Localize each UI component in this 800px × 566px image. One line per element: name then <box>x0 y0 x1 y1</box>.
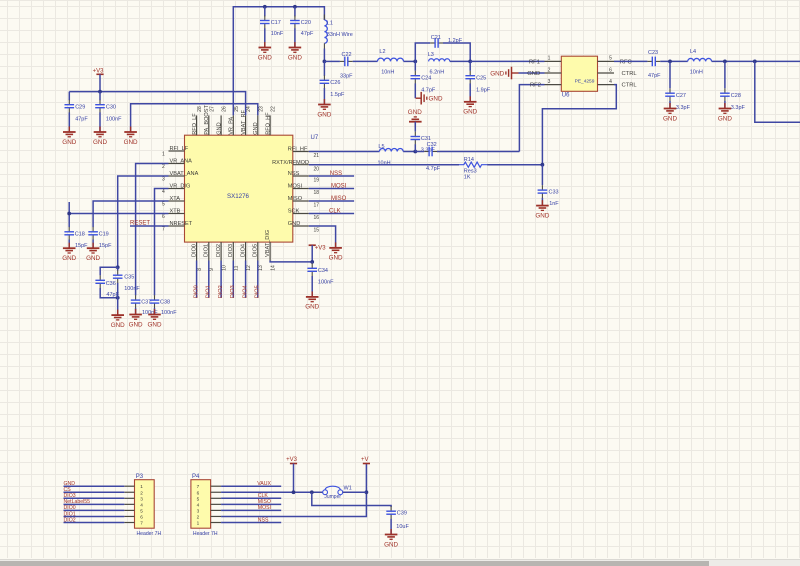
node C28 tap <box>723 60 727 64</box>
svg-text:100nF: 100nF <box>124 286 140 292</box>
svg-text:3: 3 <box>140 496 143 501</box>
wire P3 row 1 <box>64 485 125 487</box>
svg-text:C29: C29 <box>75 104 85 110</box>
wire P3 row 3 <box>64 497 125 499</box>
svg-text:Header 7H: Header 7H <box>137 531 162 537</box>
svg-text:1: 1 <box>197 521 200 526</box>
U7 pin 9 DIO1 <box>208 242 210 260</box>
node junction L3-C21-C25 <box>468 60 472 64</box>
svg-text:CTRL: CTRL <box>622 83 638 89</box>
jumper W1 <box>323 486 352 501</box>
power +V <box>361 457 370 463</box>
svg-text:DIO5: DIO5 <box>253 244 259 257</box>
ground <box>408 109 422 127</box>
svg-text:PE_4259: PE_4259 <box>575 79 595 85</box>
svg-text:1: 1 <box>162 151 165 157</box>
svg-text:C19: C19 <box>99 231 109 237</box>
U7 pin 16 SCK <box>293 213 309 215</box>
svg-text:GND: GND <box>93 139 107 146</box>
svg-text:VBAT_RF: VBAT_RF <box>241 109 247 134</box>
svg-text:CTRL: CTRL <box>622 71 638 77</box>
node antenna branch <box>753 60 757 64</box>
svg-text:16: 16 <box>314 215 320 221</box>
svg-text:21: 21 <box>314 153 320 159</box>
svg-text:8: 8 <box>197 268 203 271</box>
wire antenna branch down <box>755 61 800 122</box>
wire C28-gnd lead <box>724 101 726 109</box>
svg-text:GND: GND <box>216 122 222 134</box>
svg-text:4: 4 <box>609 79 612 85</box>
svg-text:C20: C20 <box>301 20 311 26</box>
svg-text:15pF: 15pF <box>99 243 112 249</box>
svg-text:C30: C30 <box>106 104 116 110</box>
inductor L5 <box>378 144 404 166</box>
U7 pin 5 XTA <box>169 200 185 202</box>
svg-text:GND: GND <box>305 304 319 311</box>
capacitor C34 <box>307 263 334 285</box>
wire C23 to L4 <box>660 60 688 62</box>
node C27 tap <box>668 60 672 64</box>
svg-text:6: 6 <box>140 514 143 519</box>
wire DIO2 <box>220 261 222 298</box>
svg-text:18: 18 <box>314 190 320 196</box>
svg-text:7: 7 <box>197 484 200 489</box>
wire GND pin15 <box>309 226 336 248</box>
svg-text:DIO3: DIO3 <box>228 244 234 257</box>
node C35-C36 top junction <box>116 265 120 269</box>
svg-text:22: 22 <box>271 106 277 112</box>
svg-text:L1: L1 <box>327 21 333 27</box>
svg-text:Jumper: Jumper <box>324 494 341 500</box>
svg-text:1.5pF: 1.5pF <box>330 92 345 98</box>
wire jumper to +V node <box>343 491 367 493</box>
wire C27-gnd lead <box>669 101 671 109</box>
svg-text:1nF: 1nF <box>549 201 559 207</box>
svg-text:RFI_HF: RFI_HF <box>288 147 308 153</box>
wire C22 to L2 <box>353 60 378 62</box>
wire C34 lead <box>311 262 313 264</box>
svg-text:GND: GND <box>384 541 398 548</box>
svg-text:26: 26 <box>222 106 228 112</box>
U7 pin 6 XTB <box>169 213 185 215</box>
U7 pin 8 DIO0 <box>196 242 198 260</box>
inductor L2 <box>378 49 404 75</box>
svg-text:GND: GND <box>62 139 76 146</box>
power +V3 <box>309 245 327 251</box>
capacitor C18 <box>64 227 88 249</box>
capacitor C32 <box>424 142 441 172</box>
wire C35 lead <box>117 267 119 270</box>
svg-text:20: 20 <box>314 166 320 172</box>
wire C39-gnd lead <box>390 519 392 535</box>
wire C38-gnd lead <box>154 308 156 315</box>
capacitor C36 <box>95 275 119 298</box>
U7 pin 20 RXTX/RFMOD <box>293 164 309 166</box>
svg-text:+V3: +V3 <box>93 68 105 74</box>
capacitor C17 <box>260 16 284 37</box>
svg-text:2: 2 <box>197 514 200 519</box>
wire C36 branch bottom <box>100 288 118 298</box>
svg-text:5: 5 <box>609 56 612 62</box>
svg-text:2: 2 <box>162 164 165 170</box>
wire L1 to junction <box>323 49 325 62</box>
svg-text:VR_DIG: VR_DIG <box>170 184 191 190</box>
node jumper-V junction <box>365 490 369 494</box>
svg-text:28: 28 <box>197 106 203 112</box>
svg-text:NRESET: NRESET <box>170 221 193 227</box>
wire P3 row 4 <box>64 503 125 505</box>
svg-text:GND: GND <box>408 109 422 116</box>
wire C20-gnd lead <box>294 28 296 47</box>
U7 pin 26 GND <box>220 115 222 135</box>
wire DIO4 <box>245 261 247 298</box>
ground <box>463 96 477 115</box>
P3 pin 5 stub <box>124 509 134 511</box>
wire RF2 to pin 3 <box>519 85 544 152</box>
connector P3 <box>135 474 162 537</box>
svg-text:6: 6 <box>609 67 612 73</box>
svg-text:GND: GND <box>62 255 76 262</box>
svg-text:C27: C27 <box>676 93 686 99</box>
svg-text:GND: GND <box>111 322 125 329</box>
U7 pin 25 VR_PA <box>232 115 234 135</box>
svg-text:VBAT_DIG: VBAT_DIG <box>265 230 271 257</box>
svg-text:GND: GND <box>129 321 143 328</box>
wire C35-gnd lead <box>117 283 119 315</box>
node L1-C22-C26 junction <box>323 60 327 64</box>
IC U7 SX1276 <box>185 135 319 242</box>
svg-text:DIO4: DIO4 <box>240 244 246 257</box>
svg-text:VAUX: VAUX <box>257 481 271 487</box>
node C35-C36 bottom junction <box>116 296 120 300</box>
wire CLK <box>309 213 354 215</box>
ground <box>86 243 100 262</box>
wire P3 row 2 <box>64 491 125 493</box>
svg-text:R14: R14 <box>464 157 474 163</box>
P4 pin 4 stub <box>211 503 222 505</box>
U7 pin 14 VBAT_DIG <box>269 242 271 260</box>
svg-text:14: 14 <box>271 265 277 271</box>
svg-text:RF2: RF2 <box>530 83 541 89</box>
svg-text:W1: W1 <box>344 486 352 492</box>
P4 pin 2 stub <box>211 515 222 517</box>
svg-text:C18: C18 <box>75 231 85 237</box>
U6 pin 3 stub <box>545 84 562 86</box>
wire P4 row 1 <box>221 522 281 524</box>
P4 pin 7 stub <box>211 485 222 487</box>
wire VR_ANA to C37 <box>136 164 169 296</box>
wire C20 lead <box>294 7 296 17</box>
wire C28 lead <box>724 61 726 88</box>
wire MISO <box>309 200 354 202</box>
wire junction to C32 <box>415 151 424 153</box>
svg-text:L4: L4 <box>690 49 696 55</box>
wire C34-gnd lead <box>311 276 313 297</box>
wire RFC to C23 <box>614 60 647 62</box>
svg-text:DIO1: DIO1 <box>204 244 210 257</box>
svg-text:47pF: 47pF <box>301 31 314 37</box>
node VBAT_DIG junction <box>310 260 314 264</box>
ground <box>148 309 162 328</box>
U7 pin 13 DIO5 <box>257 242 259 260</box>
svg-text:33nH Wire: 33nH Wire <box>327 32 353 38</box>
svg-text:1.9pF: 1.9pF <box>476 88 491 94</box>
capacitor C28 <box>720 88 745 111</box>
svg-text:1: 1 <box>140 484 143 489</box>
svg-text:6: 6 <box>162 214 165 220</box>
P4 pin 5 stub <box>211 497 222 499</box>
svg-text:MOSI: MOSI <box>258 505 271 511</box>
svg-text:2: 2 <box>140 490 143 495</box>
wire P4 row 3 <box>221 509 281 511</box>
svg-text:GND: GND <box>329 255 343 262</box>
svg-text:DIO0: DIO0 <box>191 244 197 257</box>
wire C33 lead <box>541 165 543 186</box>
wire C37-gnd lead <box>135 308 137 315</box>
capacitor C27 <box>665 88 690 111</box>
connector P4 <box>191 474 218 537</box>
svg-text:RF1: RF1 <box>529 59 540 65</box>
svg-text:4: 4 <box>140 502 143 507</box>
svg-text:1K: 1K <box>464 174 471 180</box>
ground <box>535 200 549 219</box>
svg-text:C28: C28 <box>731 93 741 99</box>
svg-text:GND: GND <box>253 122 259 134</box>
wire C30-gnd lead <box>99 112 101 132</box>
svg-text:11: 11 <box>234 265 240 270</box>
svg-text:GND: GND <box>288 54 302 61</box>
ground <box>317 99 331 118</box>
svg-text:C23: C23 <box>648 50 658 56</box>
U7 pin 18 MOSI <box>293 188 309 190</box>
svg-text:VR_PA: VR_PA <box>229 117 235 135</box>
svg-text:15pF: 15pF <box>75 243 88 249</box>
wire C26-gnd lead <box>323 88 325 105</box>
svg-text:C36: C36 <box>106 281 116 287</box>
svg-text:100nF: 100nF <box>106 117 122 123</box>
P4 pin 6 stub <box>211 491 222 493</box>
svg-text:+V: +V <box>361 457 369 463</box>
wire C29-gnd lead <box>68 112 70 132</box>
svg-text:15: 15 <box>314 228 320 234</box>
svg-text:7: 7 <box>162 226 165 232</box>
ground <box>490 67 518 80</box>
resistor R14 <box>459 157 487 181</box>
svg-text:33pF: 33pF <box>340 74 353 80</box>
ground <box>663 103 677 122</box>
wire GND rail to pin 23 <box>131 104 258 132</box>
svg-text:GND: GND <box>429 96 443 103</box>
wire C25 lead <box>469 61 471 70</box>
svg-text:L3: L3 <box>428 52 434 58</box>
U7 pin 4 VR_DIG <box>169 188 185 190</box>
U7 pin 10 DIO2 <box>220 242 222 260</box>
wire C27 lead <box>669 61 671 88</box>
svg-text:10nF: 10nF <box>271 31 284 37</box>
capacitor C21 <box>430 35 463 48</box>
U7 pin 27 PA_BOOST <box>208 115 210 135</box>
wire C25-gnd lead <box>469 83 471 101</box>
svg-text:GND: GND <box>317 111 331 118</box>
svg-text:C21: C21 <box>431 35 441 41</box>
wire C17 lead <box>264 7 266 17</box>
capacitor C19 <box>88 227 112 249</box>
node +V3 tap <box>292 490 296 494</box>
svg-text:23: 23 <box>258 106 264 112</box>
wire DIO3 <box>232 261 234 298</box>
svg-text:47pF: 47pF <box>75 117 88 123</box>
svg-text:C38: C38 <box>160 299 170 305</box>
wire C21 bridge <box>415 43 430 61</box>
ground <box>111 310 125 329</box>
svg-text:C34: C34 <box>318 268 328 274</box>
U7 pin 15 GND <box>293 225 309 227</box>
svg-text:9: 9 <box>209 268 215 271</box>
capacitor C23 <box>647 50 661 79</box>
U7 pin 19 NSS <box>293 175 309 177</box>
svg-text:4.7pF: 4.7pF <box>426 166 441 172</box>
U7 pin 12 DIO4 <box>245 242 247 260</box>
wire MOSI <box>309 188 354 190</box>
svg-text:5: 5 <box>162 201 165 207</box>
wire C24 to gnd <box>414 83 416 98</box>
U6 pin 1 stub <box>545 60 562 62</box>
svg-text:10nH: 10nH <box>381 69 394 75</box>
svg-text:7: 7 <box>140 521 143 526</box>
power +V3 <box>286 457 298 463</box>
svg-text:C25: C25 <box>476 75 486 81</box>
wire P4 row 4 <box>221 503 281 505</box>
svg-text:47pF: 47pF <box>648 73 661 79</box>
svg-text:P4: P4 <box>192 474 200 480</box>
svg-text:DIO4: DIO4 <box>242 285 248 298</box>
svg-text:GND: GND <box>124 139 138 146</box>
U7 pin 21 RFI_HF <box>293 151 309 153</box>
wire C36 branch top <box>100 267 118 275</box>
wire C19-gnd lead <box>92 240 94 249</box>
svg-text:L5: L5 <box>378 144 384 150</box>
svg-text:GND: GND <box>86 255 100 262</box>
node R14-C33-CTRL junction <box>541 163 545 167</box>
svg-text:5: 5 <box>140 508 143 513</box>
node C39 branch <box>310 490 314 494</box>
svg-text:DIO5: DIO5 <box>255 285 261 298</box>
svg-text:CLK: CLK <box>329 209 341 215</box>
svg-text:3.3pF: 3.3pF <box>731 105 746 111</box>
capacitor C24 <box>411 71 436 94</box>
node V3-C30 junction <box>98 90 102 94</box>
svg-text:10nH: 10nH <box>378 160 391 166</box>
svg-text:C26: C26 <box>330 80 340 86</box>
svg-text:VR_ANA: VR_ANA <box>170 159 193 165</box>
ground <box>258 42 272 61</box>
wire +V3 rail <box>69 92 245 116</box>
wire R14 to node <box>487 164 542 166</box>
svg-text:6: 6 <box>197 490 200 495</box>
wire filter to RF1 <box>470 60 544 62</box>
node C17 tap <box>263 5 267 9</box>
wire C31 to junction <box>414 144 416 151</box>
wire C39 branch <box>312 492 391 507</box>
svg-text:4: 4 <box>162 189 165 195</box>
svg-text:6.2nH: 6.2nH <box>430 69 445 75</box>
svg-text:24: 24 <box>246 106 252 112</box>
wire C24 lead <box>414 61 416 70</box>
svg-text:DIO2: DIO2 <box>216 244 222 257</box>
svg-text:GND: GND <box>535 212 549 219</box>
svg-text:C24: C24 <box>421 75 431 81</box>
svg-text:1: 1 <box>548 56 551 62</box>
scrollbar <box>0 559 800 566</box>
P3 pin 1 stub <box>124 485 134 487</box>
svg-text:RFO_LF: RFO_LF <box>192 113 198 135</box>
wire RXTX to R14 <box>309 164 459 166</box>
capacitor C38 <box>150 295 178 316</box>
U6 pin 2 stub <box>545 72 562 74</box>
svg-text:10: 10 <box>222 265 228 271</box>
svg-text:GND: GND <box>463 109 477 116</box>
wire C33-gnd lead <box>541 198 543 206</box>
U7 pin 17 MISO <box>293 200 309 202</box>
inductor L1 <box>323 15 325 21</box>
wire P4 pin2 to +V <box>221 464 366 517</box>
svg-text:19: 19 <box>314 178 320 184</box>
capacitor C30 <box>95 100 122 123</box>
wire P3 row 7 <box>64 522 125 524</box>
svg-text:C31: C31 <box>421 136 431 142</box>
U7 pin 24 VBAT_RF <box>245 115 247 135</box>
svg-text:RFC: RFC <box>620 59 632 65</box>
capacitor C20 <box>290 16 314 37</box>
svg-text:3.3pF: 3.3pF <box>421 148 436 154</box>
wire CTRL pin4 to R14 node <box>542 85 616 165</box>
svg-text:XTB: XTB <box>170 209 181 215</box>
wire NSS <box>309 175 354 177</box>
svg-text:SCK: SCK <box>288 209 300 215</box>
wire L3 to junction <box>450 60 470 62</box>
P3 pin 2 stub <box>124 491 134 493</box>
svg-text:GND: GND <box>527 71 540 77</box>
P4 pin 3 stub <box>211 509 222 511</box>
ground <box>62 127 76 146</box>
inductor L3 <box>428 52 450 75</box>
svg-text:GND: GND <box>258 54 272 61</box>
wire C26 lead <box>323 61 325 75</box>
svg-text:MOSI: MOSI <box>331 184 347 190</box>
svg-text:L2: L2 <box>379 49 385 55</box>
svg-text:4: 4 <box>197 502 200 507</box>
P3 pin 4 stub <box>124 503 134 505</box>
svg-text:NSS: NSS <box>330 171 342 177</box>
svg-text:GND: GND <box>663 115 677 122</box>
capacitor C25 <box>465 71 490 94</box>
capacitor C22 <box>340 52 353 79</box>
wire VBAT_DIG to V3 node <box>270 261 312 262</box>
node C20 tap <box>293 5 297 9</box>
wire L2 to junction <box>404 60 416 62</box>
svg-text:+V3: +V3 <box>286 457 298 463</box>
U7 pin 7 NRESET <box>169 225 185 227</box>
U7 pin 22 RFO_HF <box>269 115 271 135</box>
svg-text:5: 5 <box>197 496 200 501</box>
ground <box>129 309 143 328</box>
capacitor C26 <box>320 75 345 98</box>
wire junction to C22 <box>324 60 340 62</box>
svg-text:DIO3: DIO3 <box>230 285 236 298</box>
capacitor C39 <box>386 506 409 530</box>
svg-text:10nH: 10nH <box>690 70 703 76</box>
svg-text:MISO: MISO <box>331 196 347 202</box>
